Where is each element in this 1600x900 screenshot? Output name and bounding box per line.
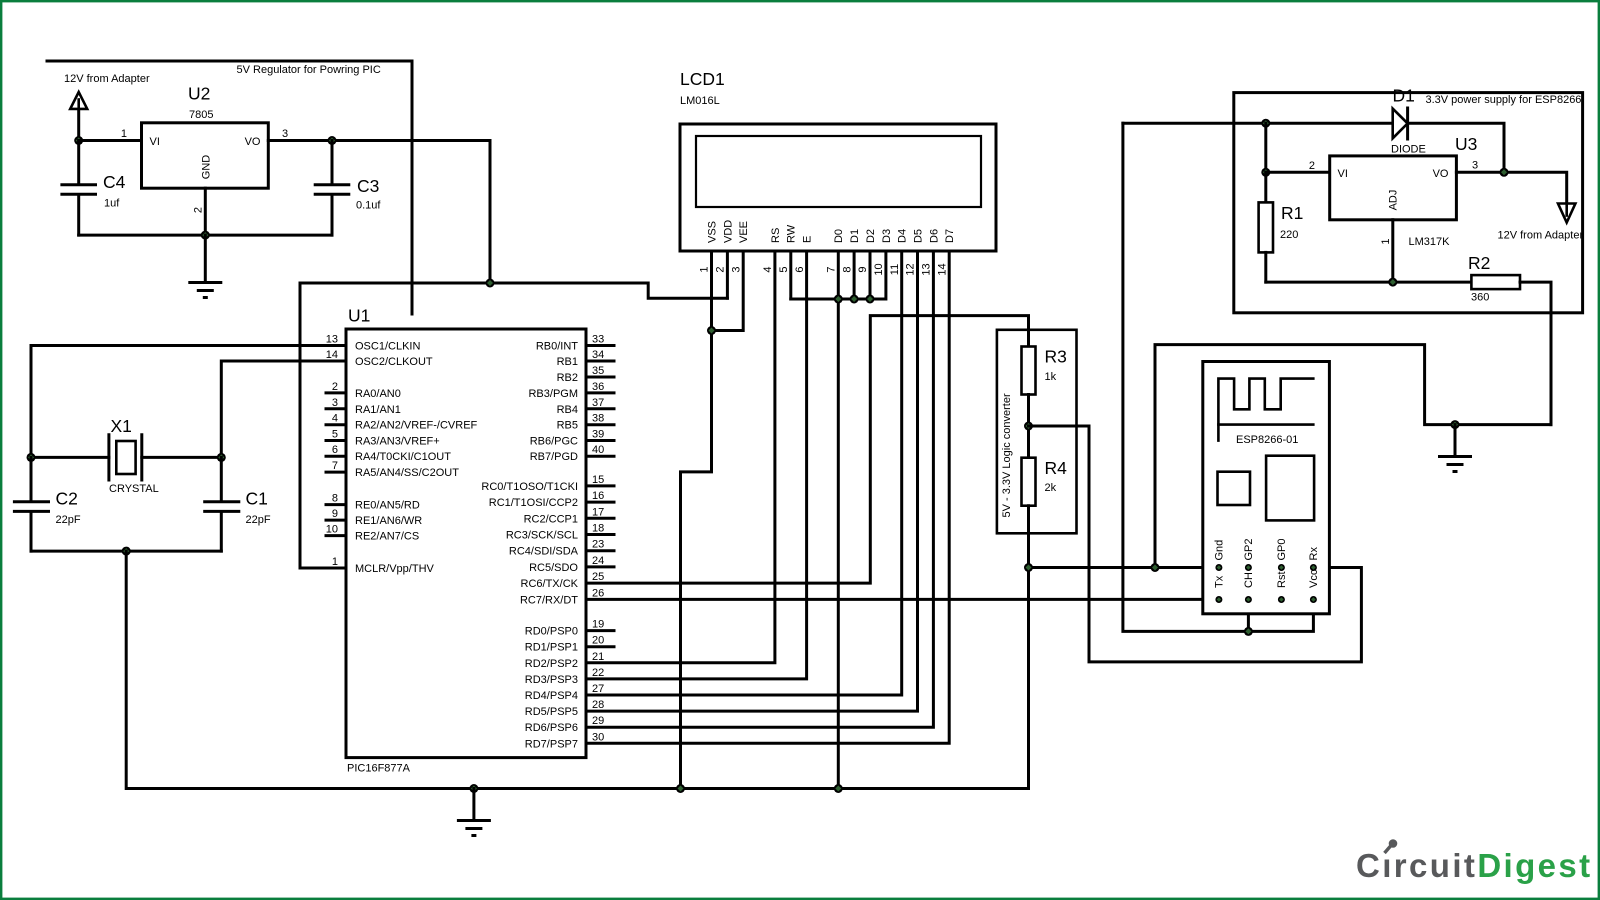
- junction VI node: [1261, 168, 1270, 177]
- svg-text:OSC2/CLKOUT: OSC2/CLKOUT: [355, 356, 433, 368]
- svg-text:U3: U3: [1455, 134, 1477, 154]
- junction ESP pad Rx: [1310, 564, 1317, 571]
- svg-text:3: 3: [1472, 159, 1478, 171]
- svg-text:23: 23: [592, 539, 604, 551]
- power supply enclosure box: [1234, 93, 1583, 313]
- svg-text:RA2/AN2/VREF-/CVREF: RA2/AN2/VREF-/CVREF: [355, 420, 478, 432]
- wire U3 ADJ pin wire: [1391, 220, 1394, 282]
- wire LCD D1 wire: [853, 251, 856, 299]
- svg-text:4: 4: [332, 413, 338, 425]
- svg-text:5: 5: [778, 266, 790, 272]
- svg-text:RE0/AN5/RD: RE0/AN5/RD: [355, 500, 420, 512]
- svg-text:RD3/PSP3: RD3/PSP3: [525, 674, 578, 686]
- svg-text:1uf: 1uf: [104, 198, 120, 210]
- svg-text:RB4: RB4: [557, 404, 578, 416]
- svg-text:17: 17: [592, 506, 604, 518]
- wire U1 pin 39 stub: [586, 439, 614, 442]
- svg-text:30: 30: [592, 731, 604, 743]
- junction 12V node: [74, 136, 83, 145]
- resistor R4: [1022, 458, 1036, 789]
- svg-text:RD5/PSP5: RD5/PSP5: [525, 706, 578, 718]
- svg-text:RD7/PSP7: RD7/PSP7: [525, 738, 578, 750]
- svg-text:RB5: RB5: [557, 420, 578, 432]
- svg-text:RB6/PGC: RB6/PGC: [530, 436, 578, 448]
- svg-text:12V from Adapter: 12V from Adapter: [1498, 230, 1584, 242]
- wire LCD D2 wire: [869, 251, 872, 299]
- svg-text:21: 21: [592, 651, 604, 663]
- capacitor C4: [62, 141, 96, 236]
- logic converter box: [997, 330, 1077, 534]
- wire right ground run: [1155, 345, 1551, 568]
- wire MCLR pull to 5V: [300, 283, 346, 568]
- svg-text:3: 3: [332, 397, 338, 409]
- svg-text:X1: X1: [111, 416, 132, 436]
- junction ESP pad CH: [1245, 596, 1252, 603]
- wire main ground rail: [126, 551, 1028, 788]
- svg-text:Tx: Tx: [1214, 575, 1226, 588]
- capacitor C1: [205, 457, 239, 551]
- svg-text:25: 25: [592, 571, 604, 583]
- svg-text:D0: D0: [833, 229, 845, 243]
- wire crystal right lead: [142, 456, 222, 459]
- junction VI-diode node: [1261, 119, 1270, 128]
- svg-text:14: 14: [326, 349, 338, 361]
- junction rail D0 node: [834, 784, 843, 793]
- ground right ground: [1438, 457, 1472, 472]
- svg-text:16: 16: [592, 490, 604, 502]
- wire diode cathode wire: [1407, 123, 1504, 172]
- svg-text:6: 6: [794, 266, 806, 272]
- svg-text:3: 3: [282, 128, 288, 140]
- svg-text:RB2: RB2: [557, 372, 578, 384]
- svg-text:CH: CH: [1243, 572, 1255, 588]
- wire U1 pin 16 stub: [586, 501, 614, 504]
- svg-text:D7: D7: [944, 229, 956, 243]
- wire U3 VO wire: [1456, 172, 1566, 203]
- wire ESP Gnd wire: [1029, 566, 1219, 569]
- svg-text:GND: GND: [200, 155, 212, 180]
- svg-text:12: 12: [905, 263, 917, 275]
- svg-text:2: 2: [715, 266, 727, 272]
- wire U1 pin 6 stub: [326, 455, 346, 458]
- svg-text:9: 9: [332, 508, 338, 520]
- svg-text:1: 1: [121, 128, 127, 140]
- wire VI pin wire U2: [79, 139, 142, 142]
- resistor R3: [1022, 347, 1036, 458]
- wire crystal ground bus: [31, 550, 221, 553]
- wire RD3 to LCD E: [586, 251, 807, 679]
- svg-text:38: 38: [592, 413, 604, 425]
- junction ESP pad Gnd: [1215, 564, 1222, 571]
- junction ESP pad Rst: [1278, 596, 1285, 603]
- svg-text:15: 15: [592, 474, 604, 486]
- svg-text:12V from Adapter: 12V from Adapter: [64, 73, 150, 85]
- svg-text:RD2/PSP2: RD2/PSP2: [525, 658, 578, 670]
- svg-text:3: 3: [730, 266, 742, 272]
- wire U1 pin 33 stub: [586, 344, 614, 347]
- svg-text:RA3/AN3/VREF+: RA3/AN3/VREF+: [355, 436, 440, 448]
- wire LCD VDD wire: [726, 251, 729, 298]
- svg-text:13: 13: [921, 263, 933, 275]
- svg-text:LCD1: LCD1: [680, 69, 725, 89]
- svg-text:28: 28: [592, 699, 604, 711]
- wire LCD RW wire: [789, 251, 792, 299]
- svg-text:33: 33: [592, 334, 604, 346]
- diode D1: [1393, 108, 1408, 139]
- svg-text:18: 18: [592, 523, 604, 535]
- svg-text:10: 10: [873, 263, 885, 275]
- svg-text:D1: D1: [849, 229, 861, 243]
- wire ADJ bottom bus: [1266, 281, 1472, 284]
- svg-text:37: 37: [592, 397, 604, 409]
- svg-text:5: 5: [332, 429, 338, 441]
- svg-text:7805: 7805: [189, 109, 213, 121]
- junction rail VSS node: [676, 784, 685, 793]
- wire OSC2 to crystal: [221, 361, 346, 457]
- svg-text:1: 1: [332, 556, 338, 568]
- svg-text:VEE: VEE: [738, 221, 750, 243]
- svg-text:19: 19: [592, 619, 604, 631]
- svg-text:8: 8: [841, 266, 853, 272]
- svg-text:11: 11: [889, 264, 901, 275]
- svg-text:R1: R1: [1281, 203, 1303, 223]
- svg-text:RD4/PSP4: RD4/PSP4: [525, 690, 578, 702]
- ground main ground: [457, 821, 491, 836]
- wire U1 pin 40 stub: [586, 455, 614, 458]
- svg-text:RB7/PGD: RB7/PGD: [530, 451, 578, 463]
- wire U1 pin 37 stub: [586, 407, 614, 410]
- wire 5V rail to LCD VDD: [300, 283, 727, 298]
- wire U1 pin 36 stub: [586, 391, 614, 394]
- svg-text:8: 8: [332, 493, 338, 505]
- svg-text:D2: D2: [865, 229, 877, 243]
- wire LCD VEE wire to VSS: [712, 251, 744, 331]
- svg-text:Rst: Rst: [1276, 572, 1288, 589]
- svg-text:29: 29: [592, 715, 604, 727]
- ESP chip 2: [1266, 456, 1314, 521]
- wire U3 VI wire: [1266, 171, 1330, 174]
- svg-text:RW: RW: [786, 224, 798, 243]
- svg-text:Gnd: Gnd: [1214, 540, 1226, 561]
- svg-text:220: 220: [1280, 229, 1298, 241]
- svg-text:R2: R2: [1468, 253, 1490, 273]
- svg-text:VSS: VSS: [706, 221, 718, 243]
- svg-text:R3: R3: [1045, 347, 1067, 367]
- svg-text:1: 1: [1380, 238, 1392, 244]
- svg-text:26: 26: [592, 587, 604, 599]
- junction ADJ node: [1388, 278, 1397, 287]
- svg-text:RC4/SDI/SDA: RC4/SDI/SDA: [509, 546, 579, 558]
- svg-text:RA4/T0CKI/C1OUT: RA4/T0CKI/C1OUT: [355, 451, 451, 463]
- junction U2 gnd node: [201, 231, 210, 240]
- svg-text:C2: C2: [56, 489, 78, 509]
- ESP8266-01 module box: [1203, 362, 1330, 614]
- junction ESP pad GP0: [1278, 564, 1285, 571]
- svg-text:7: 7: [332, 460, 338, 472]
- crystal X1: [109, 435, 142, 480]
- wire divider to ESP Rx: [1029, 426, 1362, 662]
- ESP chip 1: [1218, 472, 1251, 505]
- svg-text:VI: VI: [150, 136, 160, 148]
- svg-text:ADJ: ADJ: [1388, 190, 1400, 211]
- svg-text:RC7/RX/DT: RC7/RX/DT: [520, 594, 578, 606]
- regulator U3 LM317K: [1330, 156, 1457, 220]
- svg-text:22pF: 22pF: [246, 514, 271, 526]
- wire U1 pin 24 stub: [586, 565, 614, 568]
- svg-text:RD1/PSP1: RD1/PSP1: [525, 642, 578, 654]
- svg-text:Vcc: Vcc: [1308, 569, 1320, 588]
- svg-text:RA5/AN4/SS/C2OUT: RA5/AN4/SS/C2OUT: [355, 467, 459, 479]
- svg-text:RC0/T1OSO/T1CKI: RC0/T1OSO/T1CKI: [481, 481, 578, 493]
- LCD screen area: [696, 136, 981, 207]
- svg-text:D5: D5: [912, 229, 924, 243]
- wire U1 pin 23 stub: [586, 549, 614, 552]
- svg-text:13: 13: [326, 334, 338, 346]
- resistor R1: [1259, 172, 1273, 282]
- wire U1 pin 34 stub: [586, 360, 614, 363]
- svg-text:0.1uf: 0.1uf: [356, 200, 381, 212]
- svg-text:U2: U2: [188, 83, 210, 103]
- wire LCD D0 wire to ground: [837, 251, 840, 789]
- svg-text:RB3/PGM: RB3/PGM: [528, 388, 578, 400]
- svg-text:5V Regulator for Powring PIC: 5V Regulator for Powring PIC: [237, 64, 381, 76]
- junction crystal left node: [27, 453, 36, 462]
- svg-text:1k: 1k: [1045, 371, 1057, 383]
- svg-text:RC1/T1OSI/CCP2: RC1/T1OSI/CCP2: [489, 497, 578, 509]
- capacitor C2: [14, 457, 48, 551]
- LCD display LCD1 LM016L: [680, 124, 996, 251]
- svg-text:CRYSTAL: CRYSTAL: [109, 483, 159, 495]
- wire U1 pin 10 stub: [326, 534, 346, 537]
- wire U1 pin 9 stub: [326, 519, 346, 522]
- wire U1 pin 15 stub: [586, 484, 614, 487]
- svg-text:34: 34: [592, 349, 604, 361]
- svg-text:6: 6: [332, 444, 338, 456]
- svg-text:24: 24: [592, 555, 604, 567]
- wire RW-D0-D3 tie: [791, 251, 886, 299]
- wire OSC1 to crystal: [31, 346, 346, 458]
- wire RD4 to LCD D4: [586, 251, 902, 695]
- svg-text:39: 39: [592, 429, 604, 441]
- svg-text:RC6/TX/CK: RC6/TX/CK: [521, 578, 579, 590]
- wire U2 output to rail corner: [268, 141, 490, 284]
- svg-text:36: 36: [592, 381, 604, 393]
- svg-text:360: 360: [1471, 292, 1489, 304]
- wire RC7 RX to ESP Tx: [586, 598, 1219, 601]
- svg-text:GP2: GP2: [1243, 538, 1255, 560]
- svg-text:VDD: VDD: [722, 220, 734, 243]
- CircuitDigest logo: [1356, 839, 1593, 884]
- junction rail gnd-symbol node: [469, 784, 478, 793]
- svg-text:RS: RS: [770, 228, 782, 243]
- svg-text:C4: C4: [103, 172, 126, 192]
- junction tie node D1: [850, 295, 859, 304]
- resistor R2: [1471, 275, 1551, 425]
- capacitor C3: [315, 141, 349, 236]
- svg-text:2k: 2k: [1045, 482, 1057, 494]
- svg-text:4: 4: [762, 266, 774, 272]
- wire ESP CH riser: [1247, 600, 1250, 632]
- wire right ground stem: [1454, 425, 1457, 456]
- junction gnd-R4 node: [1024, 563, 1033, 572]
- svg-text:RD6/PSP6: RD6/PSP6: [525, 722, 578, 734]
- junction crystal gnd node: [122, 547, 131, 556]
- svg-text:20: 20: [592, 635, 604, 647]
- svg-text:U1: U1: [348, 306, 370, 326]
- junction VO node: [1500, 168, 1509, 177]
- wire U1 pin 7 stub: [326, 471, 346, 474]
- svg-text:9: 9: [857, 266, 869, 272]
- wire U1 pin 17 stub: [586, 517, 614, 520]
- svg-text:MCLR/Vpp/THV: MCLR/Vpp/THV: [355, 563, 435, 575]
- junction VSS-VEE node: [707, 326, 716, 335]
- svg-text:RA1/AN1: RA1/AN1: [355, 404, 401, 416]
- svg-text:RD0/PSP0: RD0/PSP0: [525, 626, 578, 638]
- svg-text:ESP8266-01: ESP8266-01: [1236, 434, 1298, 446]
- wire 5V supply line to U1: [47, 61, 412, 314]
- wire U2 GND pin: [204, 188, 207, 235]
- svg-text:D4: D4: [897, 229, 909, 243]
- wire U1 pin 5 stub: [326, 439, 346, 442]
- svg-text:RC2/CCP1: RC2/CCP1: [524, 513, 578, 525]
- svg-text:OSC1/CLKIN: OSC1/CLKIN: [355, 341, 420, 353]
- junction tie node D0: [834, 295, 843, 304]
- svg-text:2: 2: [193, 207, 205, 213]
- wire VI riser: [1264, 123, 1267, 172]
- microcontroller U1 PIC16F877A: [346, 329, 586, 758]
- svg-text:40: 40: [592, 444, 604, 456]
- junction crystal right node: [217, 453, 226, 462]
- svg-text:C1: C1: [246, 489, 268, 509]
- wire RD5 to LCD D5: [586, 251, 918, 711]
- svg-text:C3: C3: [357, 176, 379, 196]
- svg-text:2: 2: [332, 381, 338, 393]
- svg-text:27: 27: [592, 683, 604, 695]
- svg-text:LM016L: LM016L: [680, 95, 720, 107]
- svg-text:D6: D6: [928, 229, 940, 243]
- power arrow 12V input: [70, 92, 87, 141]
- svg-text:D3: D3: [881, 229, 893, 243]
- wire diode anode wire: [1123, 122, 1393, 125]
- junction right gnd node: [1451, 420, 1460, 429]
- junction ESP pad GP2: [1245, 564, 1252, 571]
- wire crystal left lead: [31, 456, 109, 459]
- wire U1 pin 35 stub: [586, 376, 614, 379]
- svg-text:VO: VO: [1433, 168, 1449, 180]
- svg-text:10: 10: [326, 524, 338, 536]
- svg-text:3.3V power supply for ESP8266: 3.3V power supply for ESP8266: [1426, 94, 1582, 106]
- junction tie node D2: [866, 295, 875, 304]
- power arrow 12V input right: [1558, 204, 1575, 223]
- wire ground bus U2: [79, 234, 332, 237]
- wire U1 pin 3 stub: [326, 407, 346, 410]
- svg-text:7: 7: [826, 266, 838, 272]
- svg-text:1: 1: [699, 266, 711, 272]
- junction R3-R4 node: [1024, 422, 1033, 431]
- svg-text:22: 22: [592, 667, 604, 679]
- junction ESP pad Vcc: [1310, 596, 1317, 603]
- wire U1 pin 18 stub: [586, 533, 614, 536]
- junction rail VO node: [486, 279, 495, 288]
- svg-text:2: 2: [1309, 160, 1315, 172]
- svg-text:RB1: RB1: [557, 356, 578, 368]
- junction C3 top node: [328, 136, 337, 145]
- svg-text:RE1/AN6/WR: RE1/AN6/WR: [355, 515, 422, 527]
- svg-text:RE2/AN7/CS: RE2/AN7/CS: [355, 531, 419, 543]
- svg-text:D1: D1: [1393, 86, 1415, 106]
- wire U2 ground stem: [204, 235, 207, 282]
- wire U1 pin 8 stub: [326, 503, 346, 506]
- svg-text:5V - 3.3V Logic converter: 5V - 3.3V Logic converter: [1001, 393, 1013, 517]
- wire RD7 to LCD D7: [586, 251, 949, 743]
- svg-text:E: E: [802, 236, 814, 243]
- wire U1 pin 4 stub: [326, 423, 346, 426]
- wire LCD VSS wire to ground: [681, 251, 712, 789]
- wire main ground stem: [472, 789, 475, 821]
- svg-text:GP0: GP0: [1276, 538, 1288, 560]
- junction gnd riser node: [1151, 563, 1160, 572]
- svg-text:CırcuitDigest: CırcuitDigest: [1356, 847, 1593, 884]
- svg-text:35: 35: [592, 365, 604, 377]
- svg-text:DIODE: DIODE: [1391, 144, 1426, 156]
- wire RD2 to LCD RS: [586, 251, 775, 663]
- svg-text:VI: VI: [1338, 168, 1348, 180]
- ESP antenna trace: [1218, 379, 1313, 441]
- junction CH-Vcc node: [1244, 627, 1253, 636]
- wire RD6 to LCD D6: [586, 251, 933, 727]
- svg-text:PIC16F877A: PIC16F877A: [347, 763, 411, 775]
- wire U1 pin 38 stub: [586, 423, 614, 426]
- svg-text:RA0/AN0: RA0/AN0: [355, 388, 401, 400]
- svg-text:RB0/INT: RB0/INT: [536, 341, 578, 353]
- wire U1 pin 20 stub: [586, 645, 614, 648]
- wire 3.3V to ESP Vcc: [1123, 123, 1314, 631]
- svg-text:R4: R4: [1045, 458, 1068, 478]
- svg-text:22pF: 22pF: [56, 514, 81, 526]
- svg-text:VO: VO: [245, 136, 261, 148]
- svg-text:LM317K: LM317K: [1409, 236, 1451, 248]
- wire U1 pin 19 stub: [586, 629, 614, 632]
- svg-text:Rx: Rx: [1308, 547, 1320, 561]
- svg-text:14: 14: [936, 263, 948, 275]
- junction ESP pad Tx: [1215, 596, 1222, 603]
- ground U2 ground: [188, 283, 222, 298]
- wire RC6 TX to R3: [586, 316, 1029, 583]
- svg-text:RC5/SDO: RC5/SDO: [529, 562, 578, 574]
- svg-text:RC3/SCK/SCL: RC3/SCK/SCL: [506, 530, 578, 542]
- wire U1 pin 2 stub: [326, 391, 346, 394]
- regulator U2 7805: [142, 123, 269, 188]
